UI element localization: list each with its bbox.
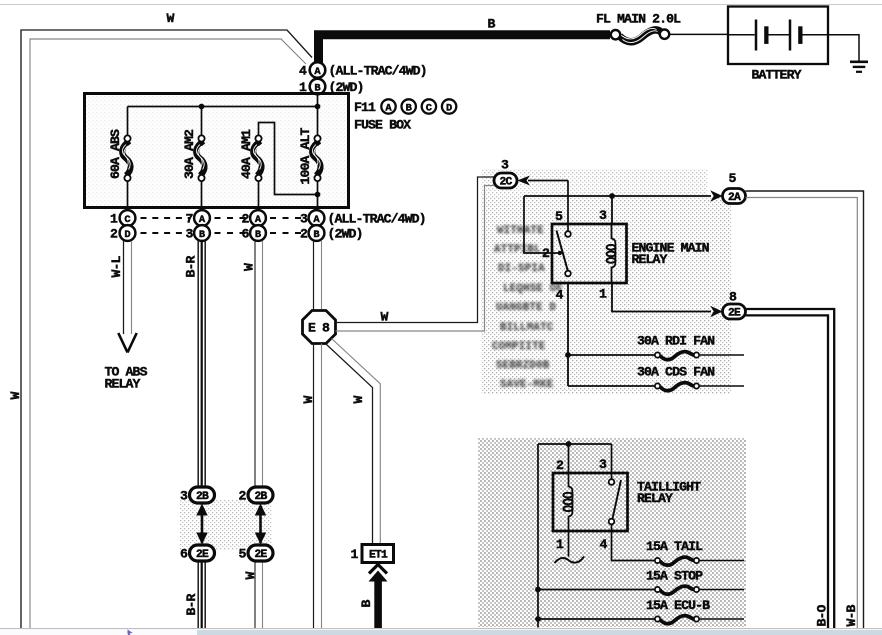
svg-text:60A ABS: 60A ABS xyxy=(108,129,123,179)
wire TAIL out xyxy=(699,560,744,562)
wire AM1 feed from ALT output xyxy=(259,123,318,195)
svg-text:W: W xyxy=(241,263,256,271)
fuse 30A RDI FAN xyxy=(637,334,715,360)
connector 4 A (ALL-TRAC/4WD) xyxy=(299,62,427,78)
wire B-R lower xyxy=(198,561,205,629)
svg-text:2: 2 xyxy=(556,458,564,473)
svg-text:ET1: ET1 xyxy=(369,550,388,562)
svg-text:BATTERY: BATTERY xyxy=(752,67,802,82)
svg-text:W: W xyxy=(243,572,258,580)
svg-text:B-R: B-R xyxy=(183,255,198,277)
svg-text:4: 4 xyxy=(599,537,607,552)
svg-text:LEQHSE OF: LEQHSE OF xyxy=(503,283,563,295)
svg-text:2C: 2C xyxy=(500,177,513,189)
svg-text:W: W xyxy=(8,392,23,400)
svg-text:RELAY: RELAY xyxy=(105,377,141,392)
wire ECU-B out xyxy=(699,618,744,620)
svg-text:UANGBTE D: UANGBTE D xyxy=(496,302,556,314)
svg-text:C: C xyxy=(426,102,432,114)
junction dot ecu-b feed xyxy=(535,616,541,622)
fuse 15A ECU-B xyxy=(646,598,710,624)
svg-text:A: A xyxy=(385,102,392,114)
wire taillight relay feed xyxy=(538,444,612,628)
svg-text:30A CDS FAN: 30A CDS FAN xyxy=(637,365,715,380)
engine main relay box U1 xyxy=(552,224,627,283)
squiggle at taillight pin 1 xyxy=(555,557,585,564)
junction dot taillight coil feed xyxy=(566,441,572,447)
svg-text:W-B: W-B xyxy=(844,604,859,626)
svg-text:FUSE BOX: FUSE BOX xyxy=(354,118,411,133)
arrow to ABS relay xyxy=(118,333,136,353)
svg-text:4: 4 xyxy=(299,64,307,79)
wire STOP out xyxy=(699,589,744,591)
svg-text:2: 2 xyxy=(110,227,118,242)
svg-text:100A ALT: 100A ALT xyxy=(298,127,313,184)
connector row 2: 2D 3B 6B 2B (2WD) xyxy=(110,225,363,241)
wire fusible link to battery xyxy=(670,33,729,35)
svg-text:8: 8 xyxy=(729,290,737,305)
svg-text:3: 3 xyxy=(300,212,308,227)
svg-text:1: 1 xyxy=(599,287,607,302)
junction dot pin4/RDI xyxy=(565,352,571,358)
svg-text:W: W xyxy=(301,396,316,404)
arrow into 2E xyxy=(710,306,722,318)
wire 2C to relay pin 5 xyxy=(567,181,569,232)
svg-text:B: B xyxy=(487,17,495,32)
harness arrow left (2B to 2E) xyxy=(196,504,207,545)
wire AM1 bottom to connector 2A xyxy=(258,181,260,211)
svg-text:1: 1 xyxy=(350,547,358,562)
connector 3 2C xyxy=(494,158,517,189)
engine relay switch xyxy=(557,231,571,277)
wire 15A STOP feed xyxy=(538,589,656,591)
svg-text:(ALL-TRAC/4WD): (ALL-TRAC/4WD) xyxy=(329,64,427,79)
svg-text:40A AM1: 40A AM1 xyxy=(239,129,254,179)
connector 6 2E (left) xyxy=(180,545,215,562)
svg-text:3: 3 xyxy=(180,489,188,504)
svg-text:E 8: E 8 xyxy=(308,321,330,336)
svg-text:1: 1 xyxy=(556,537,564,552)
arrow into 2C xyxy=(517,176,568,186)
wire ABS bottom to connector 1C xyxy=(127,181,129,211)
wire W-L from connector D xyxy=(124,241,132,334)
svg-text:1: 1 xyxy=(110,212,118,227)
svg-text:2: 2 xyxy=(300,227,308,242)
label TO ABS RELAY xyxy=(105,365,148,392)
label F11 A B C D xyxy=(354,99,456,115)
wire pin3 and pin2 to connector 2A xyxy=(524,196,711,253)
fuse 15A STOP xyxy=(646,569,703,595)
connector 1 B (2WD) xyxy=(299,79,364,95)
svg-text:15A STOP: 15A STOP xyxy=(646,569,703,584)
fusible link FL MAIN 2.0L xyxy=(611,28,669,42)
connector 1 ET1 xyxy=(350,545,393,563)
svg-text:RELAY: RELAY xyxy=(632,252,668,267)
svg-text:(ALL-TRAC/4WD): (ALL-TRAC/4WD) xyxy=(328,212,426,227)
wire 2A to right edge (W-B) xyxy=(746,191,864,628)
wire W column3 upper (connector 6B down) xyxy=(255,241,263,488)
svg-text:15A TAIL: 15A TAIL xyxy=(646,539,703,554)
wire B into ET1 (thick arrow up) xyxy=(369,565,388,629)
junction dot stop feed xyxy=(535,587,541,593)
wire W column4 (connector 2B down to E8) xyxy=(314,241,322,311)
svg-text:F11: F11 xyxy=(354,100,376,115)
connector row 1: 1C 7A 2A 3A (ALL-TRAC/4WD) xyxy=(110,210,426,226)
wire W from E8 diagonal to ET1 xyxy=(327,339,381,545)
label ENGINE MAIN RELAY xyxy=(632,241,710,268)
connector 8 2E xyxy=(723,290,746,320)
svg-text:3: 3 xyxy=(599,208,607,223)
junction dot bus ALT xyxy=(315,104,321,110)
svg-text:B: B xyxy=(199,229,206,241)
svg-text:2A: 2A xyxy=(728,192,741,204)
fuse 30A CDS FAN xyxy=(637,365,715,391)
battery xyxy=(728,7,828,65)
svg-text:D: D xyxy=(124,229,130,241)
wire ALT bottom to connector 3A xyxy=(317,181,319,211)
ground xyxy=(850,62,868,72)
connector 2 2B (right) xyxy=(238,487,273,504)
wire W from E8 down xyxy=(314,344,322,629)
wire 15A ECU-B feed xyxy=(538,618,656,620)
svg-text:B: B xyxy=(255,229,262,241)
svg-text:7: 7 xyxy=(185,212,193,227)
svg-text:FL MAIN 2.0L: FL MAIN 2.0L xyxy=(596,12,681,27)
svg-text:SEBRZD0B: SEBRZD0B xyxy=(496,360,550,372)
wire W column3 lower xyxy=(255,561,263,629)
connector 5 2A xyxy=(723,171,746,204)
svg-text:2E: 2E xyxy=(255,549,268,561)
wire 2E to right edge (B-O) xyxy=(746,309,835,628)
svg-text:B-O: B-O xyxy=(814,604,829,626)
wire CDS FAN out xyxy=(699,385,744,387)
svg-text:3: 3 xyxy=(185,227,193,242)
wire fuse box bus xyxy=(128,94,318,136)
svg-text:6: 6 xyxy=(180,547,188,562)
svg-text:D: D xyxy=(446,102,452,114)
junction dot bus AM2 xyxy=(199,104,205,110)
svg-text:B-R: B-R xyxy=(184,593,199,615)
svg-text:2E: 2E xyxy=(728,308,741,320)
svg-text:2B: 2B xyxy=(196,491,209,503)
svg-text:BILLMATC: BILLMATC xyxy=(500,322,554,334)
svg-text:5: 5 xyxy=(728,171,736,186)
taillight relay box xyxy=(553,473,628,531)
svg-text:2E: 2E xyxy=(196,549,209,561)
svg-text:RELAY: RELAY xyxy=(637,491,673,506)
svg-text:SAVE-MKE: SAVE-MKE xyxy=(500,379,554,391)
fuse 40A AM1 xyxy=(239,129,262,181)
svg-text:W: W xyxy=(351,396,366,404)
svg-text:30A AM2: 30A AM2 xyxy=(182,129,197,179)
svg-text:5: 5 xyxy=(555,209,563,224)
label TAILLIGHT RELAY xyxy=(637,480,701,507)
svg-text:3: 3 xyxy=(599,457,607,472)
svg-text:4: 4 xyxy=(555,288,563,303)
svg-text:ATTPIBL: ATTPIBL xyxy=(494,244,541,256)
svg-text:5: 5 xyxy=(238,547,246,562)
wire RDI FAN out xyxy=(699,354,744,356)
harness arrow right (2B to 2E) xyxy=(255,504,266,545)
svg-text:15A ECU-B: 15A ECU-B xyxy=(646,598,710,613)
junction dot ALT output xyxy=(315,192,321,198)
svg-text:COMPIITE: COMPIITE xyxy=(492,341,546,353)
arrow into 2A xyxy=(710,190,722,202)
svg-text:WITHATE: WITHATE xyxy=(497,225,544,237)
wire W top-left loop xyxy=(21,30,312,628)
fuse 100A ALT xyxy=(298,127,321,184)
fuse 60A ABS xyxy=(108,129,131,181)
svg-text:3: 3 xyxy=(501,158,509,173)
wire pin1 to connector 2E xyxy=(612,283,711,312)
connector 5 2E (right) xyxy=(238,545,273,562)
connector E8 (octagon) xyxy=(303,311,336,344)
svg-text:2B: 2B xyxy=(255,491,268,503)
svg-text:B: B xyxy=(406,102,413,114)
taillight relay coil xyxy=(563,444,572,557)
svg-text:W: W xyxy=(166,11,174,26)
svg-text:W-L: W-L xyxy=(109,255,124,277)
connector 3 2B (left) xyxy=(180,487,215,504)
svg-text:6: 6 xyxy=(241,227,249,242)
fuse box F11 xyxy=(85,94,349,208)
svg-text:30A RDI FAN: 30A RDI FAN xyxy=(637,334,715,349)
svg-text:(2WD): (2WD) xyxy=(328,227,363,242)
wire B battery feed (thick) xyxy=(319,35,611,63)
svg-text:2: 2 xyxy=(241,212,249,227)
wire AM2 bottom to connector 7A xyxy=(201,181,203,211)
wire pin4 down to fan fuses xyxy=(568,283,656,386)
taillight relay switch xyxy=(609,444,656,561)
svg-text:W: W xyxy=(380,310,388,325)
junction dot pin3/2A xyxy=(609,193,615,199)
wire W from E8 right to connector 2C xyxy=(336,177,495,331)
svg-text:B: B xyxy=(313,229,320,241)
svg-text:A: A xyxy=(314,66,321,78)
svg-text:DI-SPIA: DI-SPIA xyxy=(498,263,545,275)
svg-text:B: B xyxy=(359,600,374,608)
fuse 15A TAIL xyxy=(646,539,703,565)
fuse 30A AM2 xyxy=(182,129,205,181)
wire B-R upper (connector 3B down) xyxy=(198,241,205,488)
svg-text:2: 2 xyxy=(238,489,246,504)
wire battery to ground xyxy=(828,35,859,61)
engine relay coil xyxy=(607,224,616,283)
